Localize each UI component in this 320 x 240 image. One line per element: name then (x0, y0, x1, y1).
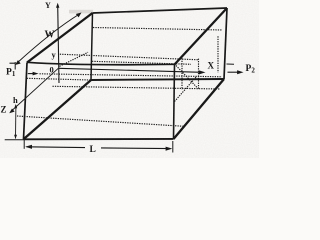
bottom edge left extension tick (5, 139, 24, 141)
hidden dotted line at y-level (top) (60, 54, 199, 60)
hidden dotted vertical inner box right (198, 59, 200, 89)
axis Y line (58, 5, 59, 83)
box edge: front bottom (24, 138, 174, 140)
box edge: back top (93, 8, 228, 13)
hidden dotted back-bottom continuation on left face (27, 78, 91, 80)
dimension L left arrowhead (25, 145, 32, 149)
dimension W extension tick (14, 62, 16, 70)
hidden dotted load line P1-P2 (40, 74, 223, 77)
dimension h line (15, 106, 17, 139)
box edge: oblique top-right (175, 8, 228, 65)
hidden dotted oblique from origin (60, 52, 89, 66)
hidden dotted line mid front face (53, 86, 221, 89)
dimension L right arrowhead (166, 147, 173, 151)
dimension h bottom arrowhead (14, 135, 17, 139)
hidden dotted line lower front face (17, 116, 184, 126)
dimension L line left part (27, 146, 86, 149)
force P1 stub line (10, 62, 16, 64)
box edge: oblique top-left (27, 13, 93, 63)
axis Z line (13, 68, 59, 110)
hidden dotted line on back face (93, 28, 223, 31)
hidden dotted line at y-level (second) (92, 61, 191, 64)
short tick near P2 (227, 63, 235, 65)
paper grain overlay (0, 0, 1, 1)
axis X arrowhead (199, 70, 206, 74)
box edge: back left (91, 13, 93, 80)
scan smudge near back-top-left corner (69, 10, 93, 14)
dimension L line right part (101, 147, 171, 150)
hidden dotted oblique from front-top-right corner (176, 66, 197, 88)
dimension L left extension line (23, 140, 25, 149)
dimension W upper arrowhead (76, 13, 82, 18)
box edge: oblique bottom-left (24, 80, 92, 139)
axis X line (58, 68, 201, 72)
box edge: oblique bottom-right (174, 79, 225, 139)
hidden dotted vertical right (217, 36, 219, 72)
hidden dotted oblique near bottom-right edge (175, 77, 197, 102)
hidden dotted vertical inner box left (181, 58, 183, 90)
box edge: front top (27, 62, 175, 64)
box edge: back bottom (91, 79, 224, 80)
box edge: front right (174, 65, 175, 140)
dimension h top arrowhead (14, 104, 17, 108)
internal reaction arrow on P line (28, 73, 35, 75)
force P2 arrow (228, 71, 240, 73)
box edge: front left (24, 63, 28, 140)
dimension W lower arrowhead (15, 60, 21, 65)
axis Y arrowhead (56, 3, 59, 8)
dimension W arrow line (17, 14, 80, 64)
box edge: back right (224, 8, 227, 79)
dimension L right extension line (172, 141, 174, 153)
axis Z arrowhead (9, 109, 14, 114)
